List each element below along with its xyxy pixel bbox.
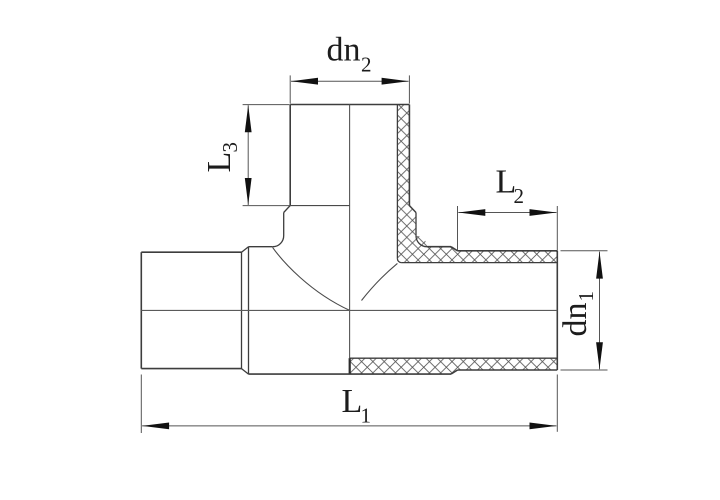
node dn1 value label: [557, 291, 598, 337]
wire: right socket top chamfer: [451, 247, 458, 251]
wire: section boundary line: [349, 105, 351, 359]
svg-text:dn: dn: [327, 32, 361, 69]
wire: branch right inner wall: [396, 105, 398, 259]
node dn2 right arrowhead: [382, 78, 409, 85]
node dn2 left arrowhead: [291, 78, 318, 85]
node L3 top extension line: [243, 104, 290, 106]
wire: socket depth line: [290, 205, 349, 207]
node L2 left arrowhead: [458, 209, 485, 216]
wire: L2 dimension line: [458, 212, 556, 214]
node L2 right arrowhead: [530, 209, 557, 216]
node L1 left extension line: [140, 375, 142, 434]
node L1 value label: [342, 383, 372, 428]
node L1 right arrowhead: [530, 423, 557, 430]
wire: branch left flare wall: [283, 213, 285, 236]
svg-text:1: 1: [361, 404, 372, 428]
svg-text:L: L: [342, 383, 363, 420]
node dn1 bottom arrowhead: [596, 342, 603, 369]
wire: bottom wall section left edge: [349, 358, 351, 374]
wire: dn1 dimension line: [599, 252, 601, 370]
wire: inner corner fillet: [397, 259, 401, 263]
node dn2 left extension line: [289, 75, 291, 103]
hatched section: right-pipe bottom wall: [350, 358, 558, 374]
hatched section: branch right wall and right-pipe top wall: [397, 105, 557, 263]
svg-text:2: 2: [361, 53, 372, 77]
wire: branch right flare wall: [415, 213, 417, 236]
wire: right pipe end face: [556, 251, 558, 370]
svg-text:2: 2: [514, 184, 525, 208]
wire: left outer fillet: [273, 236, 284, 247]
node dn2 value label: [327, 32, 372, 77]
wire: body top surface right: [427, 246, 451, 248]
wire: inner bore intersection curve: [362, 263, 398, 300]
svg-text:L: L: [201, 152, 238, 173]
node L2 value label: [496, 164, 525, 209]
wire: main centerline: [141, 309, 557, 311]
wire: right socket outer top: [458, 250, 558, 252]
wire: right socket bottom chamfer: [451, 370, 458, 374]
node L1 left arrowhead: [142, 423, 169, 430]
wire: right socket outer bottom: [458, 369, 558, 371]
node L3 value label: [201, 142, 242, 173]
wire: branch left chamfer: [284, 206, 291, 213]
wire: shoulder circle small: [241, 252, 243, 368]
wire: body bottom outer surface: [249, 373, 452, 375]
node dn1 bottom extension line: [561, 369, 608, 371]
node L3 bottom arrowhead: [245, 178, 252, 205]
wire: branch right outer wall: [408, 105, 410, 206]
wire: shoulder circle large: [248, 247, 250, 374]
wire: shoulder chamfer top: [242, 247, 249, 253]
wire: bore bottom inner line: [350, 357, 558, 359]
node L2 right extension line: [556, 206, 558, 251]
wire: right outer fillet: [416, 236, 427, 247]
wire: dn2 dimension line: [291, 80, 409, 82]
node L3 top arrowhead: [245, 105, 252, 132]
wire: left pipe end face: [140, 252, 142, 368]
wire: shoulder chamfer bottom: [242, 369, 249, 375]
node L3 bottom extension line: [243, 205, 290, 207]
wire: L3 dimension line: [247, 105, 249, 205]
node L1 right extension line: [556, 375, 558, 432]
wire: body top surface left: [249, 246, 273, 248]
svg-text:1: 1: [574, 291, 598, 302]
wire: left pipe bottom edge: [141, 368, 241, 370]
node dn1 top arrowhead: [596, 252, 603, 279]
wire: saddle intersection curve: [273, 247, 350, 310]
wire: left pipe top edge: [141, 251, 241, 253]
node L2 left extension line: [457, 206, 459, 250]
wire: bore top inner line: [401, 262, 557, 264]
node dn2 right extension line: [408, 75, 410, 103]
svg-text:dn: dn: [557, 303, 594, 337]
node dn1 top extension line: [561, 250, 608, 252]
wire: L1 dimension line: [142, 425, 556, 427]
wire: branch left outer wall: [289, 105, 291, 206]
svg-text:3: 3: [218, 142, 242, 153]
wire: branch right chamfer: [409, 206, 416, 213]
wire: branch top edge: [290, 104, 409, 106]
